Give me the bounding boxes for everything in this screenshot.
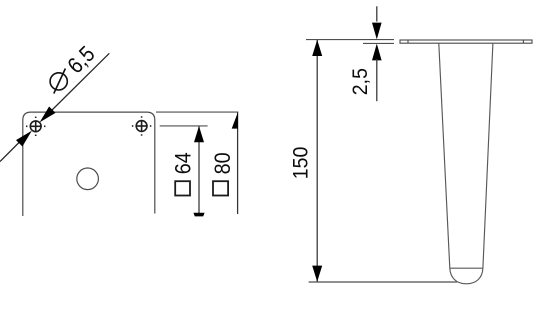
- extension line bottom of top plate: [363, 42, 394, 44]
- plate rim tick right: [522, 40, 524, 43]
- dim line 2,5 lower: [376, 59, 378, 101]
- plate rim tick left: [407, 40, 409, 43]
- diameter symbol of callout: [50, 69, 67, 94]
- extension line at hole level: [160, 125, 208, 127]
- leader line lower segment: [0, 136, 26, 162]
- arrow 64 top: [194, 126, 204, 142]
- center hole (big circle): [77, 168, 99, 190]
- arrow 2,5 down: [372, 23, 382, 40]
- dim line 150: [316, 40, 318, 282]
- leader line upper segment: [47, 53, 109, 115]
- dim line 64: [198, 127, 200, 214]
- half arrow 80 top: [232, 112, 238, 128]
- svg-text:2,5: 2,5: [349, 68, 372, 95]
- screw hole right: [132, 116, 151, 135]
- leg right side: [483, 43, 493, 268]
- square symbol for 64: [175, 181, 190, 195]
- arrow 150 top: [312, 40, 322, 56]
- arrow 64 bottom: [193, 213, 204, 217]
- arrow 150 bottom: [312, 266, 322, 282]
- extension line at plate top level: [156, 111, 238, 113]
- square symbol for 80: [213, 181, 228, 195]
- leader arrow upper (points down-left at hole): [40, 107, 56, 123]
- plate top view outline: [23, 112, 155, 216]
- extension line top of leg: [306, 39, 394, 41]
- svg-text:6,5: 6,5: [63, 42, 100, 79]
- leg foot line: [450, 267, 483, 269]
- leg plate side view outline: [400, 40, 532, 43]
- leg foot dome: [450, 268, 483, 284]
- svg-text:150: 150: [290, 147, 313, 180]
- dim line 2,5 upper: [376, 6, 378, 21]
- ground line: [309, 281, 457, 283]
- svg-text:64: 64: [171, 152, 195, 174]
- svg-text:80: 80: [211, 152, 235, 174]
- arrow 2,5 up: [372, 44, 382, 61]
- dim line 80: [237, 113, 239, 215]
- leg left side: [439, 43, 450, 268]
- leader arrow lower (points up-right at hole): [16, 131, 32, 147]
- screw hole left: [26, 117, 45, 136]
